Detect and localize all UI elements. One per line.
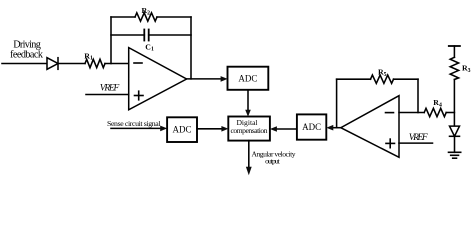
wire diode to R1 bbox=[58, 63, 85, 65]
resistor R3 bbox=[450, 57, 458, 79]
U2 plus sign bbox=[386, 142, 395, 144]
wire VREF to plus input bbox=[86, 94, 129, 96]
block digital compensation bbox=[228, 117, 270, 141]
wire U2 inverting input bbox=[399, 112, 424, 114]
svg-text:feedback: feedback bbox=[10, 49, 44, 60]
svg-text:R5: R5 bbox=[378, 68, 387, 78]
U1 plus sign bbox=[135, 95, 144, 97]
wire digital compensation output bbox=[248, 141, 250, 168]
wire R1 to inverting input bbox=[105, 63, 129, 65]
resistor R4 bbox=[424, 108, 446, 116]
block ADC1 bbox=[228, 67, 269, 90]
wire feedback top rail right bbox=[157, 16, 191, 18]
svg-text:ADC: ADC bbox=[302, 122, 321, 132]
wire U2 feedback top rail left bbox=[337, 78, 371, 80]
svg-text:Sense circuit signal: Sense circuit signal bbox=[107, 119, 161, 128]
power rail bar bbox=[449, 45, 460, 47]
wire feedback right vertical bbox=[190, 17, 192, 79]
arrow into digital compensation top bbox=[245, 110, 251, 117]
wire sense signal bbox=[111, 127, 160, 129]
op-amp U1 bbox=[129, 48, 187, 110]
arrow into digital compensation right bbox=[270, 126, 277, 132]
wire ADC1 to digital compensation bbox=[247, 90, 249, 110]
svg-text:R4: R4 bbox=[433, 98, 442, 108]
wire capacitor rail left bbox=[111, 34, 144, 36]
wire R4 to divider node bbox=[446, 112, 454, 114]
svg-text:VREF: VREF bbox=[409, 133, 428, 143]
svg-text:output: output bbox=[265, 157, 281, 166]
capacitor C1 bbox=[143, 30, 145, 41]
svg-text:C1: C1 bbox=[145, 42, 154, 52]
block ADC3 bbox=[297, 114, 326, 139]
svg-text:R2: R2 bbox=[142, 6, 151, 16]
wire op-amp U2 output to ADC3 bbox=[333, 127, 341, 129]
svg-text:ADC: ADC bbox=[172, 125, 191, 135]
svg-text:R3: R3 bbox=[462, 64, 471, 74]
block ADC2 bbox=[167, 117, 197, 142]
arrow into ADC2 bbox=[160, 126, 167, 132]
svg-text:R1: R1 bbox=[84, 51, 93, 61]
label Driving feedback bbox=[10, 40, 44, 61]
resistor R5 bbox=[371, 75, 394, 83]
wire feedback top rail left bbox=[111, 16, 135, 18]
resistor R2 bbox=[135, 13, 157, 21]
wire U2 feedback left vertical bbox=[336, 79, 338, 128]
wire U2 feedback top rail right bbox=[394, 78, 419, 80]
svg-text:VREF: VREF bbox=[100, 84, 120, 94]
wire ADC2 to digital compensation bbox=[197, 128, 222, 130]
wire capacitor rail right bbox=[149, 34, 191, 36]
wire feedback left vertical bbox=[110, 17, 112, 64]
wire ADC3 to digital compensation bbox=[277, 128, 297, 130]
U2 minus sign bbox=[386, 112, 394, 114]
resistor R1 bbox=[85, 59, 105, 67]
diode D1 bbox=[47, 58, 58, 70]
op-amp U2 bbox=[341, 96, 399, 158]
svg-text:compensation: compensation bbox=[231, 126, 268, 135]
arrow into digital compensation left bbox=[221, 126, 228, 132]
arrow into ADC3 right bbox=[326, 125, 333, 131]
svg-text:ADC: ADC bbox=[238, 74, 257, 84]
wire U2 plus input bbox=[399, 142, 433, 144]
diode D2 bbox=[450, 126, 460, 136]
wire op-amp output bbox=[187, 78, 222, 80]
arrow angular velocity output bbox=[246, 167, 252, 175]
wire R3 to diode bbox=[453, 80, 455, 127]
wire driving feedback input bbox=[2, 63, 47, 65]
wire rail to R3 bbox=[453, 46, 455, 57]
wire U2 feedback right vertical bbox=[417, 79, 419, 112]
wire diode to ground bbox=[454, 136, 456, 152]
ground bbox=[449, 151, 461, 153]
arrow into ADC1 bbox=[221, 76, 228, 82]
U1 minus sign bbox=[134, 62, 142, 64]
